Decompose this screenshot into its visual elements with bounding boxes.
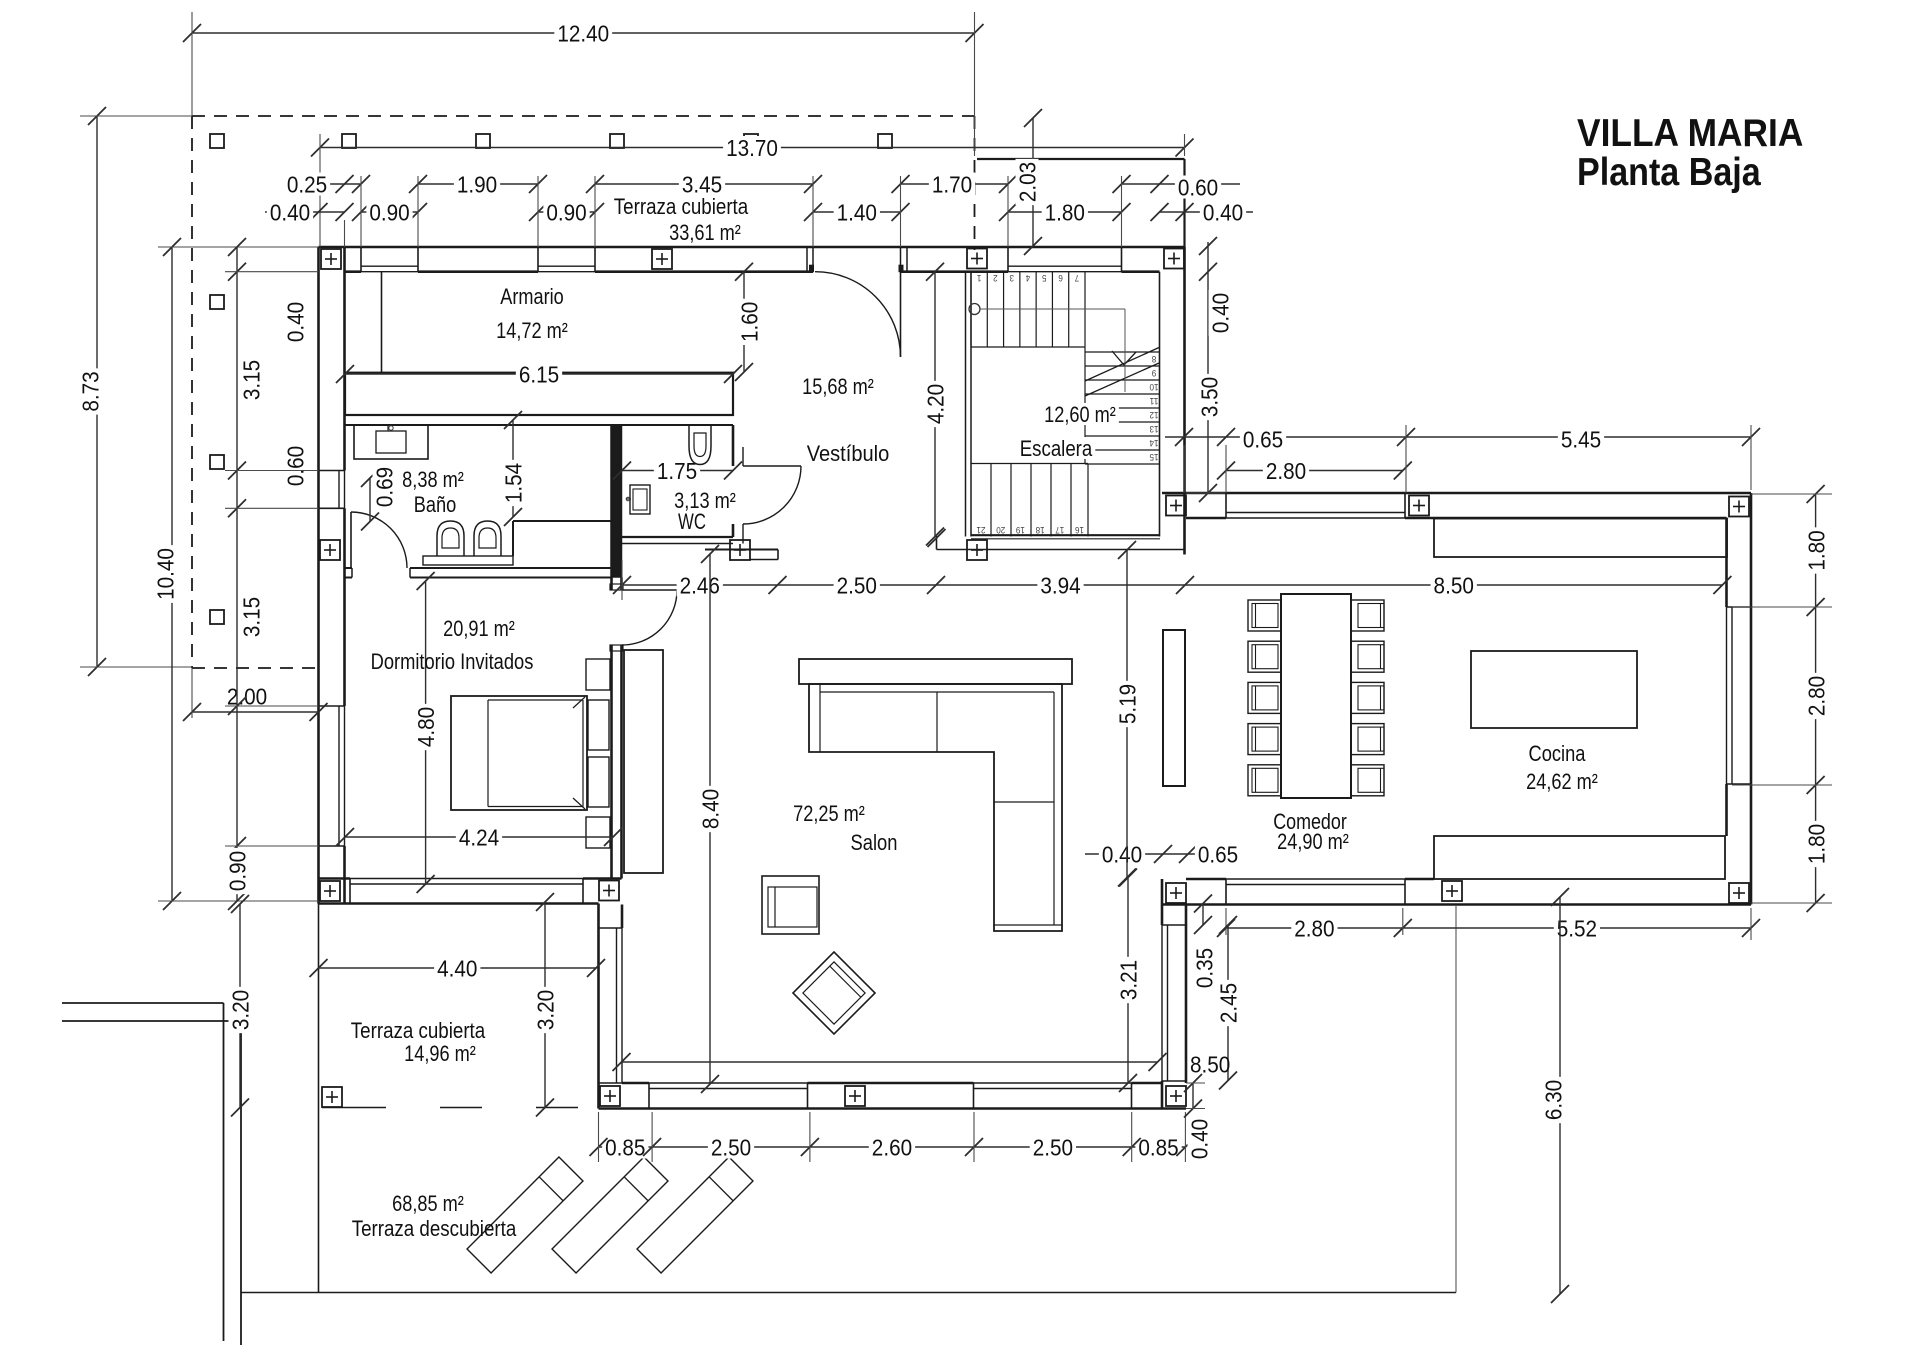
svg-text:14: 14 (1150, 438, 1159, 448)
svg-text:4.80: 4.80 (413, 707, 439, 747)
svg-text:Escalera: Escalera (1020, 436, 1093, 461)
svg-text:0.85: 0.85 (605, 1134, 645, 1160)
svg-text:Planta Baja: Planta Baja (1577, 151, 1761, 194)
svg-text:2.46: 2.46 (680, 572, 720, 598)
svg-text:15,68 m²: 15,68 m² (802, 374, 874, 399)
svg-text:17: 17 (1055, 525, 1064, 535)
svg-text:3.20: 3.20 (532, 990, 558, 1030)
svg-text:24,62 m²: 24,62 m² (1526, 769, 1598, 794)
svg-text:3.20: 3.20 (227, 990, 253, 1030)
svg-text:6.30: 6.30 (1540, 1080, 1566, 1120)
svg-text:2.45: 2.45 (1215, 983, 1241, 1023)
svg-text:3.94: 3.94 (1040, 572, 1080, 598)
svg-text:0.40: 0.40 (1186, 1119, 1212, 1159)
svg-text:14,72 m²: 14,72 m² (496, 318, 568, 343)
svg-text:11: 11 (1150, 396, 1159, 406)
svg-text:1.70: 1.70 (932, 171, 972, 197)
svg-text:12.40: 12.40 (557, 20, 609, 46)
svg-text:4: 4 (1026, 273, 1031, 283)
svg-text:5.19: 5.19 (1114, 684, 1140, 724)
svg-text:0.85: 0.85 (1138, 1134, 1178, 1160)
svg-text:19: 19 (1016, 525, 1025, 535)
svg-text:3.50: 3.50 (1196, 377, 1222, 417)
svg-text:3.15: 3.15 (238, 360, 264, 400)
svg-text:18: 18 (1036, 525, 1045, 535)
svg-text:Armario: Armario (500, 284, 563, 309)
svg-text:Terraza cubierta: Terraza cubierta (351, 1018, 486, 1043)
svg-text:3.21: 3.21 (1115, 960, 1141, 1000)
svg-text:2.50: 2.50 (1033, 1134, 1073, 1160)
svg-text:2.80: 2.80 (1266, 458, 1306, 484)
svg-text:1.90: 1.90 (457, 171, 497, 197)
svg-text:8: 8 (1152, 354, 1157, 364)
svg-text:Terraza descubierta: Terraza descubierta (352, 1216, 517, 1241)
svg-text:14,96 m²: 14,96 m² (404, 1041, 476, 1066)
svg-text:4.40: 4.40 (437, 955, 477, 981)
svg-text:33,61 m²: 33,61 m² (669, 220, 741, 245)
svg-text:Terraza cubierta: Terraza cubierta (614, 194, 749, 219)
svg-text:2.80: 2.80 (1294, 915, 1334, 941)
svg-text:2.00: 2.00 (227, 683, 267, 709)
svg-text:12: 12 (1150, 410, 1159, 420)
svg-text:72,25 m²: 72,25 m² (793, 801, 865, 826)
svg-text:Baño: Baño (414, 492, 457, 517)
svg-text:WC: WC (678, 509, 706, 534)
svg-text:20,91 m²: 20,91 m² (443, 616, 515, 641)
svg-text:1.54: 1.54 (500, 463, 526, 503)
svg-text:0.40: 0.40 (270, 199, 310, 225)
svg-text:Dormitorio Invitados: Dormitorio Invitados (371, 649, 534, 674)
svg-text:1.80: 1.80 (1803, 824, 1829, 864)
svg-text:3.15: 3.15 (238, 597, 264, 637)
svg-text:8.50: 8.50 (1434, 572, 1474, 598)
svg-text:8.73: 8.73 (77, 371, 103, 411)
svg-text:0.60: 0.60 (282, 446, 308, 486)
svg-text:10.40: 10.40 (152, 548, 178, 600)
svg-text:8,38 m²: 8,38 m² (402, 467, 464, 492)
svg-text:7: 7 (1075, 273, 1080, 283)
svg-text:0.40: 0.40 (282, 302, 308, 342)
svg-text:0.65: 0.65 (1198, 841, 1238, 867)
svg-text:6.15: 6.15 (519, 361, 559, 387)
svg-text:9: 9 (1152, 368, 1157, 378)
svg-text:2.03: 2.03 (1014, 162, 1040, 202)
svg-text:1.80: 1.80 (1803, 530, 1829, 570)
svg-text:0.90: 0.90 (546, 199, 586, 225)
svg-text:5.52: 5.52 (1557, 915, 1597, 941)
svg-text:12,60 m²: 12,60 m² (1044, 402, 1116, 427)
svg-text:21: 21 (977, 525, 986, 535)
svg-text:1.75: 1.75 (657, 458, 697, 484)
svg-text:13.70: 13.70 (726, 135, 778, 161)
svg-text:5.45: 5.45 (1561, 426, 1601, 452)
svg-text:0.40: 0.40 (1102, 841, 1142, 867)
svg-text:0.90: 0.90 (369, 199, 409, 225)
svg-text:4.20: 4.20 (922, 384, 948, 424)
svg-text:0.40: 0.40 (1203, 199, 1243, 225)
svg-text:2: 2 (993, 273, 998, 283)
svg-text:6: 6 (1058, 273, 1063, 283)
svg-text:16: 16 (1075, 525, 1084, 535)
svg-text:8.50: 8.50 (1190, 1051, 1230, 1077)
svg-text:20: 20 (996, 525, 1005, 535)
svg-text:0.65: 0.65 (1243, 426, 1283, 452)
svg-text:1.60: 1.60 (736, 302, 762, 342)
svg-text:2.80: 2.80 (1803, 676, 1829, 716)
svg-text:3: 3 (1009, 273, 1014, 283)
svg-text:2.50: 2.50 (711, 1134, 751, 1160)
svg-text:8.40: 8.40 (697, 789, 723, 829)
svg-text:2.60: 2.60 (872, 1134, 912, 1160)
svg-text:0.69: 0.69 (371, 467, 397, 507)
svg-text:0.60: 0.60 (1178, 174, 1218, 200)
svg-text:0.35: 0.35 (1191, 948, 1217, 988)
svg-text:Cocina: Cocina (1529, 741, 1587, 766)
svg-text:0.90: 0.90 (224, 851, 250, 891)
svg-text:VILLA MARIA: VILLA MARIA (1577, 112, 1803, 155)
svg-text:2.50: 2.50 (837, 572, 877, 598)
svg-text:13: 13 (1150, 424, 1159, 434)
svg-text:0.25: 0.25 (287, 171, 327, 197)
svg-text:15: 15 (1150, 452, 1159, 462)
svg-text:Vestíbulo: Vestíbulo (807, 441, 890, 466)
svg-text:24,90 m²: 24,90 m² (1277, 829, 1349, 854)
svg-text:10: 10 (1150, 382, 1159, 392)
svg-text:0.40: 0.40 (1207, 293, 1233, 333)
svg-text:1.80: 1.80 (1045, 199, 1085, 225)
svg-text:4.24: 4.24 (459, 824, 499, 850)
svg-text:68,85 m²: 68,85 m² (392, 1191, 464, 1216)
svg-text:Salon: Salon (851, 830, 898, 855)
svg-text:5: 5 (1042, 273, 1047, 283)
svg-text:1: 1 (977, 273, 982, 283)
svg-text:1.40: 1.40 (837, 199, 877, 225)
